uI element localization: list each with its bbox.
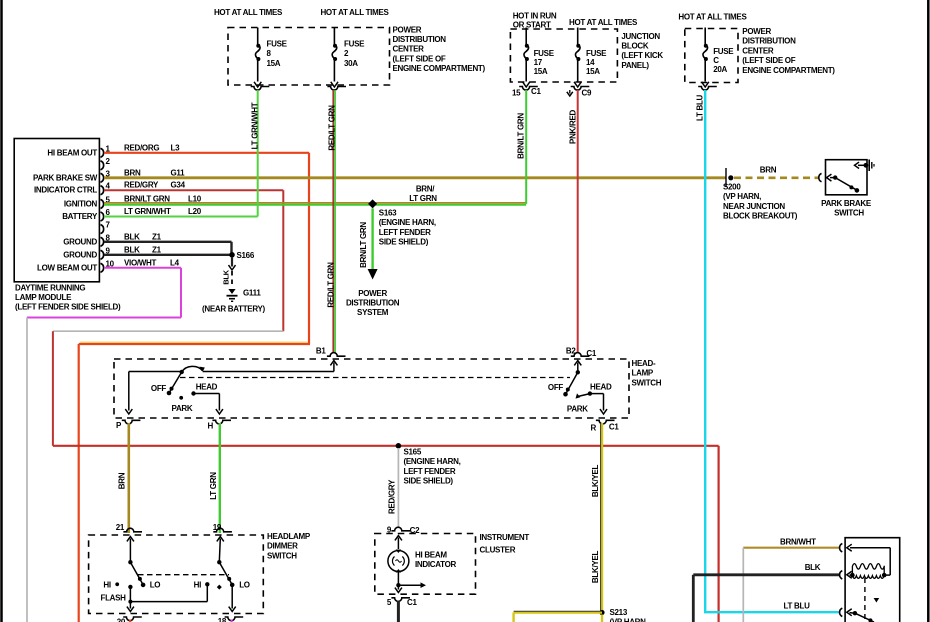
wire BLK/YEL R to S213 [601, 423, 603, 613]
connector 5 C1 [391, 598, 410, 602]
wire RED/ORG stub under pin 20 [129, 620, 131, 622]
svg-text:S200: S200 [723, 183, 741, 192]
svg-text:SIDE SHIELD): SIDE SHIELD) [404, 477, 454, 486]
cluster feed arrow [395, 536, 402, 541]
svg-text:(NEAR BATTERY): (NEAR BATTERY) [202, 305, 266, 314]
wire BLK cluster to bottom [397, 601, 400, 622]
svg-text:(VP HARN,: (VP HARN, [723, 192, 761, 201]
svg-text:HOT AT ALL TIMES: HOT AT ALL TIMES [569, 18, 638, 27]
fuse C output connector [698, 87, 717, 91]
svg-text:8: 8 [267, 49, 272, 58]
svg-text:(VP HARN: (VP HARN [610, 618, 647, 622]
svg-text:LT BLU: LT BLU [696, 94, 705, 121]
component switch arm [855, 613, 874, 622]
svg-text:G34: G34 [171, 181, 186, 190]
svg-text:S166: S166 [237, 251, 255, 260]
ground G111 [228, 289, 235, 294]
svg-text:GROUND: GROUND [63, 237, 97, 246]
connector H [212, 420, 231, 424]
svg-text:HOT AT ALL TIMES: HOT AT ALL TIMES [320, 8, 389, 17]
connector 9 C2 [391, 527, 410, 531]
svg-text:B1: B1 [316, 347, 326, 356]
wire WHT grey vertical [742, 548, 744, 622]
wire RED/ORG vertical x309 [308, 153, 310, 344]
svg-text:BRN/LT GRN: BRN/LT GRN [359, 222, 368, 268]
wire BLK/YEL below S213 [601, 615, 603, 622]
inline connector S200 bar [725, 168, 727, 187]
svg-text:IGNITION: IGNITION [64, 199, 98, 208]
wire BLK/YEL left from S213 [514, 611, 602, 613]
svg-text:LO: LO [150, 581, 161, 590]
wire BRN dashed to park brake switch [734, 177, 818, 180]
svg-text:BLK/YEL: BLK/YEL [591, 465, 600, 498]
headlamp switch box [114, 359, 629, 418]
svg-text:C1: C1 [586, 349, 596, 358]
svg-text:2: 2 [344, 49, 349, 58]
wire LT GRN H to 19 [219, 423, 221, 533]
svg-text:LT BLU: LT BLU [784, 601, 811, 610]
headlamp switch right arm feed [574, 361, 581, 366]
wire BLK/YEL down x513.6 [512, 613, 514, 622]
svg-text:FUSE: FUSE [713, 47, 734, 56]
module pin connectors [101, 148, 104, 157]
svg-text:SYSTEM: SYSTEM [357, 308, 389, 317]
svg-text:21: 21 [116, 523, 125, 532]
svg-text:Z1: Z1 [152, 232, 162, 241]
svg-text:BLK: BLK [124, 232, 140, 241]
svg-text:20A: 20A [713, 65, 727, 74]
svg-text:BRN/: BRN/ [416, 185, 435, 194]
svg-text:L4: L4 [170, 258, 180, 267]
svg-text:(LEFT SIDE OF: (LEFT SIDE OF [742, 56, 795, 65]
dimmer left arm [130, 562, 143, 585]
svg-text:VIO/WHT: VIO/WHT [124, 258, 157, 267]
svg-text:NEAR JUNCTION: NEAR JUNCTION [723, 202, 785, 211]
svg-text:LEFT FENDER: LEFT FENDER [404, 467, 456, 476]
svg-text:POWER: POWER [742, 27, 771, 36]
svg-text:LEFT FENDER: LEFT FENDER [379, 228, 431, 237]
svg-text:POWER: POWER [358, 289, 387, 298]
svg-text:BLK/YEL: BLK/YEL [591, 551, 600, 584]
wire LT BLU vertical [704, 90, 706, 612]
component mechanical link dashed [864, 578, 866, 622]
dimmer link wire to HI (right) [129, 587, 131, 602]
wire B1-P internal [128, 372, 130, 411]
svg-text:7: 7 [106, 221, 111, 230]
svg-text:HOT AT ALL TIMES: HOT AT ALL TIMES [214, 8, 283, 17]
splice S200 [728, 175, 733, 180]
svg-text:HEADLAMP: HEADLAMP [267, 532, 311, 541]
svg-text:PARK: PARK [172, 404, 193, 413]
wire RED/ORG pin1 horizontal [104, 152, 309, 154]
resistor coil lower [852, 576, 884, 579]
svg-text:LO: LO [239, 581, 250, 590]
fuse 2 output connector [327, 87, 346, 91]
contact HI (right) [205, 582, 209, 586]
svg-text:OFF: OFF [548, 383, 564, 392]
headlamp switch left wiper arc [182, 366, 203, 372]
component switch contact [853, 611, 857, 615]
svg-text:DISTRIBUTION: DISTRIBUTION [393, 35, 447, 44]
dimmer right feed [217, 537, 224, 542]
wire LT BLU horizontal to component [704, 611, 839, 613]
svg-text:C1: C1 [531, 87, 541, 96]
svg-text:15A: 15A [586, 67, 600, 76]
svg-text:DAYTIME RUNNING: DAYTIME RUNNING [15, 283, 85, 292]
headlamp switch left arm to OFF [169, 372, 181, 393]
svg-text:LT GRN: LT GRN [209, 472, 218, 500]
fuse 8 15A [255, 46, 260, 59]
splice S166 [229, 252, 235, 258]
svg-text:CLUSTER: CLUSTER [480, 545, 516, 554]
svg-text:DISTRIBUTION: DISTRIBUTION [346, 299, 400, 308]
wire BRN/WHT horizontal [743, 547, 839, 549]
svg-text:ENGINE COMPARTMENT): ENGINE COMPARTMENT) [742, 66, 835, 75]
wire VIO/WHT vertical x181 [180, 268, 182, 318]
svg-text:(LEFT FENDER SIDE SHIELD): (LEFT FENDER SIDE SHIELD) [15, 303, 121, 312]
wire RED/LT GRN fuse 2 to B1 red [332, 90, 334, 353]
svg-text:HI BEAM: HI BEAM [415, 551, 447, 560]
wire RED/GRY vertical x52.9 [52, 331, 54, 446]
svg-text:DISTRIBUTION: DISTRIBUTION [742, 37, 796, 46]
daytime running lamp module box [14, 139, 99, 282]
svg-text:B2: B2 [566, 347, 576, 356]
wire BRN/LT GRN pin5 olive stripe [104, 202, 526, 204]
fuse 2 30A [332, 46, 337, 59]
svg-text:JUNCTION: JUNCTION [621, 32, 660, 41]
svg-text:BLK: BLK [124, 245, 140, 254]
svg-text:FUSE: FUSE [534, 49, 555, 58]
svg-text:G111: G111 [243, 289, 261, 298]
svg-text:POWER: POWER [393, 25, 422, 34]
power distribution center box (fuses 8 and 2) [228, 28, 390, 86]
wire RED/ORG vertical x78.7 [78, 344, 80, 622]
svg-text:INDICATOR CTRL: INDICATOR CTRL [34, 186, 97, 195]
dimmer right arm [219, 562, 232, 585]
wire BRN/LT GRN pin5 green stripe [104, 204, 526, 206]
svg-text:H: H [208, 422, 214, 431]
svg-text:SWITCH: SWITCH [267, 551, 297, 560]
svg-text:S163: S163 [379, 209, 397, 218]
wire RED/GRY pin4 horizontal [104, 189, 283, 191]
wire VIO/WHT white segment x27 [26, 318, 28, 622]
wire RED/GRY grey drop to cluster [397, 448, 399, 528]
svg-text:C1: C1 [407, 598, 417, 607]
svg-text:RED/LT GRN: RED/LT GRN [328, 105, 337, 151]
svg-text:(ENGINE HARN,: (ENGINE HARN, [379, 218, 436, 227]
instrument cluster box [375, 534, 476, 595]
svg-text:FUSE: FUSE [344, 40, 365, 49]
bottom right component box [845, 538, 900, 622]
svg-text:PANEL): PANEL) [621, 61, 649, 70]
svg-text:BLOCK BREAKOUT): BLOCK BREAKOUT) [723, 212, 798, 221]
connector B1 [327, 353, 346, 357]
svg-text:LAMP: LAMP [632, 369, 654, 378]
wire RED/ORG yellow stripe y342 [80, 341, 308, 343]
svg-text:15: 15 [512, 89, 521, 98]
svg-text:HI: HI [194, 580, 201, 589]
contact HI (left) [115, 582, 119, 586]
svg-text:INDICATOR: INDICATOR [415, 560, 457, 569]
headlamp switch right arm to OFF [566, 372, 578, 394]
splice S213 [599, 610, 604, 615]
fuse 17 output connector 15 C1 [519, 87, 538, 91]
connector 21 [123, 528, 142, 532]
svg-text:CENTER: CENTER [742, 46, 774, 55]
dimmer pin20 exit [129, 602, 131, 609]
wire RED/GRY vertical x718.6 [717, 446, 719, 622]
fuse 8 output connector [251, 87, 270, 91]
dimmer pin18 exit [231, 585, 233, 609]
svg-text:PARK BRAKE SW: PARK BRAKE SW [33, 173, 98, 182]
svg-text:HI BEAM OUT: HI BEAM OUT [47, 148, 97, 157]
svg-text:HEAD-: HEAD- [632, 359, 656, 368]
svg-text:15A: 15A [267, 59, 281, 68]
component BRN/WHT connector [840, 544, 843, 552]
page right border [927, 0, 930, 622]
svg-text:FUSE: FUSE [267, 40, 288, 49]
wire BRN/LT GRN vertical to fuse 17 [525, 90, 527, 204]
park brake switch box [826, 160, 868, 195]
contact PARK (left) [179, 396, 183, 400]
svg-text:SWITCH: SWITCH [834, 209, 864, 218]
wire BRN P to 21 [128, 423, 131, 533]
cluster lamp to pin5 wire [397, 572, 399, 586]
park brake switch entry arrow [827, 174, 832, 181]
svg-text:FUSE: FUSE [586, 49, 607, 58]
wire LT GRN/WHT pin6 horizontal [104, 216, 258, 218]
wire BLK dashed stub [231, 271, 233, 288]
wire BLK to ground [231, 257, 233, 267]
svg-text:BLK: BLK [222, 269, 231, 284]
dimmer left feed [127, 537, 134, 542]
svg-text:PARK BRAKE: PARK BRAKE [821, 199, 872, 208]
svg-text:C1: C1 [609, 423, 619, 432]
svg-text:RED/ORG: RED/ORG [124, 143, 159, 152]
wire RED/ORG horizontal y344 [79, 343, 310, 345]
component LT BLU connector [840, 608, 843, 616]
wire RED/GRY grey segment y331 [53, 330, 283, 332]
svg-text:(ENGINE HARN,: (ENGINE HARN, [404, 457, 461, 466]
svg-text:5: 5 [387, 598, 392, 607]
park brake switch connector [819, 173, 822, 181]
headlamp dimmer switch box [89, 535, 264, 614]
component small triangle [874, 598, 880, 603]
svg-text:BRN: BRN [760, 166, 777, 175]
connector B2 C1 [571, 353, 590, 357]
junction block box [510, 29, 617, 82]
svg-text:G11: G11 [171, 168, 186, 177]
connector 18 [225, 617, 244, 621]
svg-text:BATTERY: BATTERY [62, 212, 98, 221]
wire BLK pin9 [104, 254, 232, 256]
svg-text:DIMMER: DIMMER [267, 542, 298, 551]
svg-text:HOT AT ALL TIMES: HOT AT ALL TIMES [678, 13, 747, 22]
page left border [0, 0, 3, 622]
wire BLK pin8 [104, 241, 232, 243]
contact below pivot (left) [128, 585, 132, 589]
svg-text:C: C [713, 56, 719, 65]
svg-text:BRN: BRN [124, 168, 141, 177]
svg-text:LAMP MODULE: LAMP MODULE [15, 293, 72, 302]
svg-text:LOW BEAM OUT: LOW BEAM OUT [37, 263, 97, 272]
connector P [122, 420, 141, 424]
dimmer mechanical link dashed [138, 574, 229, 576]
svg-text:HOT IN RUN: HOT IN RUN [513, 12, 557, 21]
svg-text:BLK: BLK [805, 563, 821, 572]
fuse 17 15A [524, 46, 529, 59]
svg-text:FLASH: FLASH [101, 593, 127, 602]
contact HEAD (left) [191, 391, 195, 395]
headlamp switch left arm feed [330, 361, 337, 366]
svg-text:2: 2 [106, 157, 111, 166]
wire HEAD contact to H exit [194, 393, 220, 395]
wire RED/GRY long horizontal y445.8 [53, 445, 719, 447]
svg-text:30A: 30A [344, 59, 358, 68]
contact PARK link arrow (right) [576, 393, 581, 398]
svg-text:HEAD: HEAD [196, 383, 218, 392]
hi beam indicator lamp [388, 551, 409, 572]
wire BRN/LT GRN arrow to power distribution system [371, 208, 373, 269]
svg-text:GROUND: GROUND [63, 250, 97, 259]
wire PNK/RED fuse 14 to B2 [577, 90, 579, 353]
connector R C1 [596, 420, 615, 424]
svg-text:LT GRN/WHT: LT GRN/WHT [251, 102, 260, 149]
svg-text:OFF: OFF [151, 384, 167, 393]
wire BRN pin3 horizontal [104, 176, 726, 179]
fuse 14 output connector C9 [571, 87, 590, 91]
fuse 14 15A [575, 46, 580, 59]
wire RED/LT GRN green stripe [334, 90, 336, 353]
component BLK connector [840, 571, 843, 579]
svg-text:LT GRN/WHT: LT GRN/WHT [124, 207, 171, 216]
splice S163 [368, 199, 377, 208]
svg-text:OR START: OR START [513, 21, 551, 30]
svg-text:20: 20 [117, 618, 126, 622]
svg-text:(LEFT SIDE OF: (LEFT SIDE OF [393, 54, 446, 63]
wire RED/GRY vertical x283 [282, 190, 284, 331]
wire VIO/WHT horizontal y317.5 [27, 317, 181, 319]
svg-text:HI: HI [103, 580, 110, 589]
connector 20 [123, 617, 142, 621]
svg-text:S165: S165 [404, 448, 422, 457]
power distribution center box (fuse C) [685, 29, 738, 83]
fuse C 20A [703, 46, 708, 59]
wire HEAD to R exit (right) [590, 393, 604, 395]
svg-text:INSTRUMENT: INSTRUMENT [480, 533, 530, 542]
svg-text:SIDE SHIELD): SIDE SHIELD) [379, 238, 429, 247]
svg-text:19: 19 [213, 523, 222, 532]
park brake switch arm [835, 178, 857, 191]
ground symbol (park brake switch) [868, 160, 870, 172]
wire VIO/WHT pin10 horizontal [104, 267, 181, 269]
wire BLK horizontal [693, 573, 839, 576]
headlamp switch inner dashed link [180, 377, 570, 379]
svg-text:PNK/RED: PNK/RED [569, 110, 578, 144]
svg-text:17: 17 [534, 58, 543, 67]
svg-text:LT GRN: LT GRN [409, 194, 437, 203]
svg-text:15A: 15A [534, 67, 548, 76]
svg-text:RED/GRY: RED/GRY [124, 181, 159, 190]
svg-text:RED/GRY: RED/GRY [388, 479, 397, 514]
svg-text:SWITCH: SWITCH [632, 378, 662, 387]
connector 19 [213, 528, 232, 532]
svg-text:S213: S213 [610, 608, 628, 617]
wire LT GRN/WHT vertical to fuse 8 [257, 90, 259, 217]
svg-text:(LEFT KICK: (LEFT KICK [621, 51, 663, 60]
svg-text:HEAD: HEAD [590, 383, 612, 392]
svg-text:L3: L3 [171, 143, 181, 152]
svg-text:RED/LT GRN: RED/LT GRN [327, 262, 336, 308]
component internal feed [889, 548, 891, 575]
park brake switch ground branch [864, 163, 869, 168]
svg-text:BLOCK: BLOCK [621, 42, 648, 51]
svg-text:CENTER: CENTER [393, 45, 425, 54]
svg-text:BRN/LT GRN: BRN/LT GRN [517, 113, 526, 159]
svg-text:P: P [116, 421, 122, 430]
svg-text:BRN/WHT: BRN/WHT [780, 537, 816, 546]
svg-text:R: R [591, 424, 597, 433]
svg-text:C9: C9 [582, 89, 592, 98]
splice S165 [396, 443, 402, 449]
park brake switch contact [833, 175, 837, 179]
svg-text:ENGINE COMPARTMENT): ENGINE COMPARTMENT) [393, 64, 486, 73]
resistor junction dots [850, 573, 855, 578]
svg-text:14: 14 [586, 58, 595, 67]
wire BLK vertical x693 [692, 575, 695, 622]
svg-text:Z1: Z1 [152, 245, 162, 254]
svg-text:18: 18 [218, 617, 227, 622]
svg-text:PARK: PARK [567, 405, 588, 414]
svg-text:L20: L20 [188, 207, 202, 216]
contact below pivot (right) [217, 585, 222, 590]
resistor coil upper [852, 564, 884, 575]
svg-text:BRN: BRN [118, 472, 127, 489]
wire VIO/WHT stub under pin 18 [231, 620, 233, 622]
